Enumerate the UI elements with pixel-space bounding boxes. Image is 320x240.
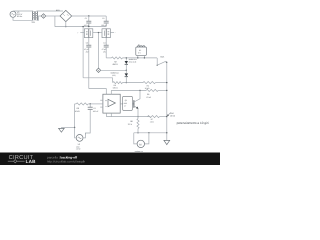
svg-text:C2: C2 [102,17,104,20]
wire right column [166,62,167,140]
label BR1 [56,9,60,12]
svg-text:C3: C3 [86,42,88,45]
svg-text:http://circuitlab.com/c6eaqdh: http://circuitlab.com/c6eaqdh [47,159,86,163]
logo LAB text [26,159,37,164]
svg-text:motore cc: motore cc [135,150,143,153]
label C4 [102,42,108,54]
svg-text:C4: C4 [103,42,105,45]
wire op-amp bottom rail [106,116,150,118]
label V2 [76,143,81,151]
wire V2 left terminal up to ground wire [75,128,77,138]
label C3 [84,42,90,54]
capacitor C5 [85,104,92,135]
label R3 R4 [113,84,150,90]
svg-text:SW1: SW1 [160,56,164,59]
transistor Q1 label box [123,96,133,110]
capacitor C1 [86,16,91,27]
diode D1 [125,57,128,71]
svg-text:LAB: LAB [26,159,37,164]
ground symbol right [164,140,170,144]
svg-text:680 Ω: 680 Ω [113,87,118,90]
label TR1 [31,21,36,24]
label R8 [128,120,133,126]
wire diamond to bridge left vertex [46,15,60,17]
svg-text:50 Hz: 50 Hz [17,15,22,18]
voltage source V2 (signal) [76,135,83,142]
pin U3 bottom supply [106,113,111,117]
label D2 [111,71,119,77]
label M1 [135,150,143,153]
label C2 [101,17,108,27]
capacitor C4 [104,38,109,58]
potentiometer R10 wiper arrow [167,113,170,116]
resistor R8 [137,117,139,134]
motor M1 left wire [134,133,137,144]
op-amp IC U3 box [103,94,120,113]
svg-text:R9: R9 [147,93,149,96]
svg-text:MMBD914: MMBD914 [111,71,119,74]
svg-text:−: − [115,33,116,35]
svg-text:R10: R10 [170,112,173,115]
svg-text:R2: R2 [114,61,116,64]
wire bottom rail with resistors [113,82,167,84]
wire bottom output rail [134,132,167,133]
capacitor C2 [104,16,109,27]
label R6 [75,107,81,113]
footer black bar [0,153,220,166]
bridge rectifier BR1 [60,10,72,21]
label C5 [93,107,99,113]
wire mid rail to diodes [101,69,127,71]
label R10 [170,112,176,118]
pin U2 right [110,33,115,35]
svg-text:R7: R7 [151,118,153,121]
svg-text:BR1: BR1 [56,9,60,12]
relay K1 box [136,46,147,59]
ammeter flag diamond (node marker) [41,14,46,19]
svg-text:680 Ω: 680 Ω [113,63,119,66]
label R9 [146,93,151,99]
pin U3 left inputs [100,100,103,107]
wire positive rail with resistor R2 [106,57,157,59]
svg-text:(D2): (D2) [112,74,116,77]
svg-text:K1: K1 [139,49,141,52]
wire bottom rail (negative) [55,26,106,28]
footer url text [47,159,86,163]
wire down to bottom rail [54,16,56,27]
switch SW1 [157,58,168,66]
voltage regulator U2 [102,29,110,38]
resistor R7 [148,116,167,118]
transformer TR1 [32,11,37,20]
wire transformer secondary top to bridge [37,10,63,13]
label K1 [138,44,141,55]
label R2 [113,61,119,67]
svg-text:100 µF: 100 µF [101,24,108,27]
svg-text:M: M [139,143,141,146]
svg-text:+: + [77,32,78,35]
svg-text:C1: C1 [85,17,87,20]
svg-text:27 kΩ: 27 kΩ [146,96,151,99]
svg-text:100 nF: 100 nF [93,110,99,113]
svg-text:1 kΩ: 1 kΩ [150,120,154,123]
svg-text:R8: R8 [130,120,132,123]
wire R6 to ground [61,104,75,128]
voltage regulator U1 [84,29,92,38]
svg-text:Q1: Q1 [125,99,127,102]
ground flag diamond node [96,68,100,72]
footer circuit name text [47,156,78,160]
svg-text:(D1) 4148: (D1) 4148 [129,61,137,64]
wire left column down [82,26,83,78]
label C1 [84,17,91,27]
svg-text:10 kΩ: 10 kΩ [75,110,81,113]
wire ground column [98,33,100,69]
pin U1 right to ground column [93,32,99,34]
pin U3 output [120,103,123,105]
label R7 [150,118,154,124]
logo CIRCUIT text [9,155,34,161]
svg-text:1 kHz: 1 kHz [76,148,81,151]
svg-text:10 kΩ: 10 kΩ [170,115,176,118]
svg-text:R4: R4 [147,84,149,87]
svg-text:R3: R3 [114,84,116,87]
svg-text:C5: C5 [93,107,95,110]
pin U3 top supply [110,90,112,94]
transistor Q1 [132,90,140,117]
wire top rail (positive) from bridge [72,15,107,16]
motor M1 right wire [145,133,149,144]
label D1 [129,58,137,64]
svg-text:F1: F1 [138,44,140,47]
label V1 value text [17,11,23,18]
wire left column to bottom rail [83,78,112,83]
wire transformer secondary bottom [37,16,41,20]
wire op-amp supply rail right [111,90,146,91]
svg-text:100 µF: 100 µF [84,24,91,27]
note potentiometer text [177,121,209,125]
svg-text:47: 47 [124,105,126,108]
logo wire glyph [8,160,25,163]
ground symbol left [59,128,65,133]
resistor R9 on supply wire [146,89,167,91]
voltage source V1 (AC mains) [10,11,16,17]
svg-text:potenziometro a 10 giri: potenziometro a 10 giri [177,121,209,125]
capacitor C3 [86,38,91,89]
wire bridge bottom vertex to rail [65,22,66,28]
wire branch to op-amp top pin [89,89,107,95]
wire V1 top to transformer [13,10,33,12]
svg-text:BC5: BC5 [124,102,127,105]
resistor R6 input [75,103,103,105]
pin U2 left to ground column [98,32,102,33]
diode D2 [125,70,128,83]
svg-text:R6: R6 [77,107,79,110]
svg-text:2.2 k: 2.2 k [128,123,132,126]
pin U1 left [77,32,84,35]
wire V2 right terminal [83,133,85,138]
svg-text:MMBD914: MMBD914 [129,58,137,61]
wire V1 bottom to transformer [13,17,33,20]
motor M1 [137,140,144,147]
label SW1 [160,56,164,59]
